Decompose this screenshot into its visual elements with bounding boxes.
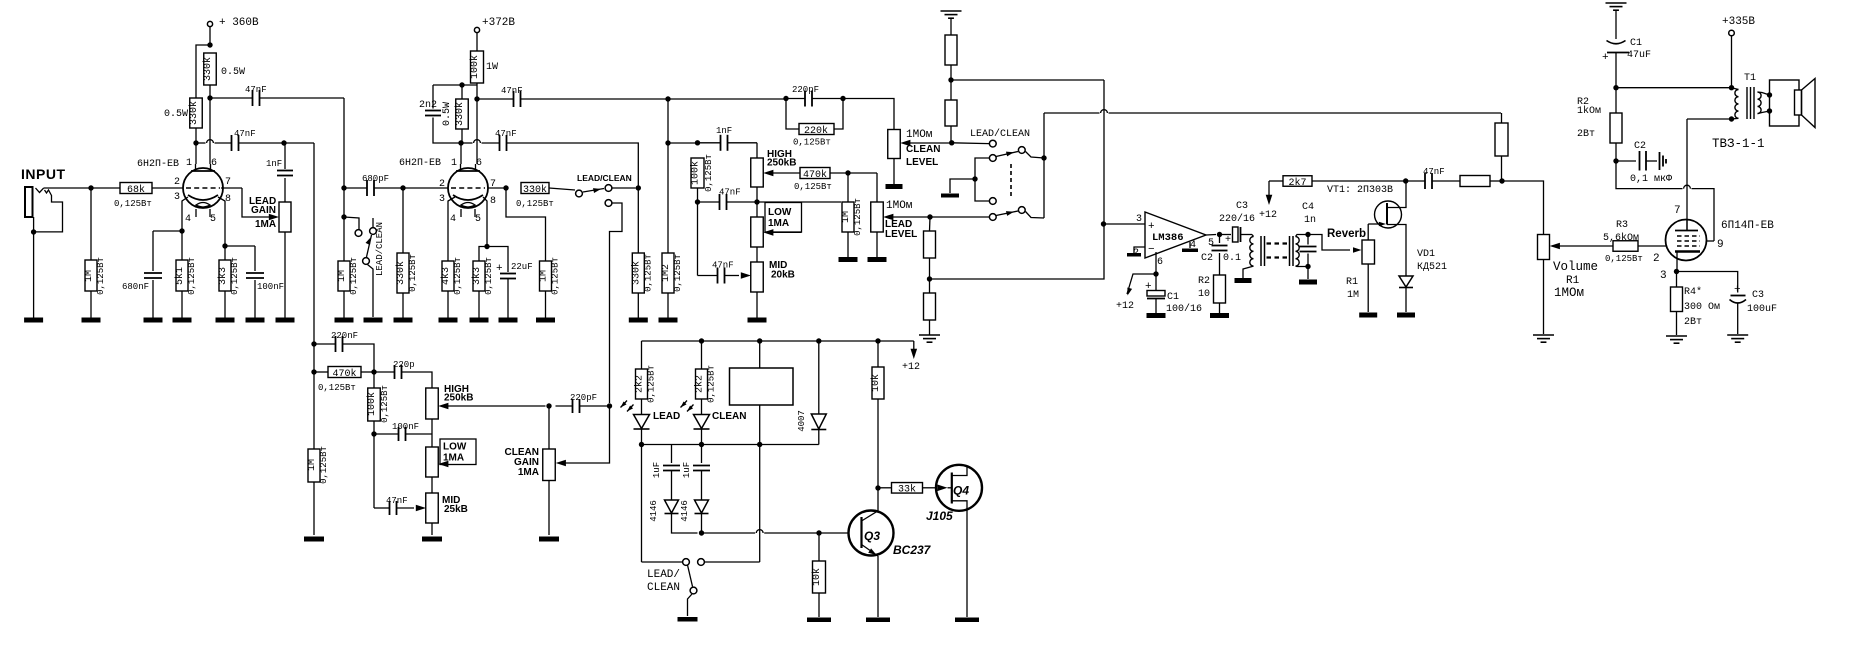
svg-text:100nF: 100nF: [257, 282, 284, 292]
svg-text:47nF: 47nF: [501, 86, 523, 96]
svg-text:1nF: 1nF: [716, 126, 732, 136]
svg-text:100k: 100k: [469, 55, 481, 79]
svg-text:+372В: +372В: [482, 17, 515, 29]
svg-text:+335В: +335В: [1722, 16, 1755, 28]
svg-text:0,125Вт: 0,125Вт: [318, 383, 356, 393]
svg-text:LOW: LOW: [443, 442, 467, 453]
svg-text:Reverb: Reverb: [1327, 228, 1366, 240]
svg-text:C3: C3: [1236, 201, 1248, 212]
svg-text:2k2: 2k2: [634, 375, 646, 393]
svg-text:0,125Вт: 0,125Вт: [114, 199, 152, 209]
svg-text:0,125Вт: 0,125Вт: [1605, 254, 1643, 264]
svg-text:100nF: 100nF: [392, 422, 419, 432]
svg-text:CLEAN: CLEAN: [712, 411, 746, 422]
svg-text:0,125Вт: 0,125Вт: [647, 365, 657, 403]
svg-text:10k: 10k: [870, 374, 882, 392]
svg-text:1uF: 1uF: [682, 462, 692, 478]
svg-text:1M: 1M: [539, 270, 550, 282]
svg-text:2: 2: [174, 177, 180, 188]
svg-text:0,125Вт: 0,125Вт: [187, 257, 197, 295]
svg-text:5: 5: [475, 214, 481, 225]
svg-text:+: +: [496, 263, 503, 275]
svg-text:T1: T1: [1744, 73, 1756, 84]
svg-text:+12: +12: [902, 362, 920, 373]
svg-text:47uF: 47uF: [1627, 50, 1651, 61]
svg-text:1М2: 1М2: [661, 264, 672, 282]
svg-text:47nF: 47nF: [495, 129, 517, 139]
svg-text:C1: C1: [1630, 38, 1642, 49]
svg-text:+12: +12: [1259, 210, 1277, 221]
svg-text:0,125Вт: 0,125Вт: [794, 182, 832, 192]
svg-text:0.5W: 0.5W: [164, 109, 188, 120]
svg-text:47nF: 47nF: [1423, 167, 1445, 177]
svg-text:0,125Вт: 0,125Вт: [408, 254, 418, 292]
svg-text:220pF: 220pF: [792, 85, 819, 95]
svg-text:33k: 33k: [898, 484, 916, 496]
svg-text:0,125Вт: 0,125Вт: [319, 446, 329, 484]
svg-text:+: +: [1602, 52, 1609, 64]
svg-text:220/16: 220/16: [1219, 213, 1255, 225]
svg-text:0,125Вт: 0,125Вт: [516, 199, 554, 209]
svg-text:0,125Вт: 0,125Вт: [643, 254, 653, 292]
svg-text:LM386: LM386: [1152, 232, 1184, 244]
svg-text:6Н2П-ЕВ: 6Н2П-ЕВ: [399, 158, 441, 169]
svg-text:330k: 330k: [454, 102, 466, 126]
svg-text:47nF: 47nF: [719, 188, 741, 198]
svg-text:Volume: Volume: [1553, 260, 1598, 274]
svg-text:6: 6: [476, 158, 482, 169]
svg-text:1МОм: 1МОм: [906, 129, 933, 141]
svg-text:0,125Вт: 0,125Вт: [349, 257, 359, 295]
svg-text:−: −: [1148, 244, 1155, 256]
svg-text:+ 360В: + 360В: [219, 17, 259, 29]
svg-text:3k3: 3k3: [471, 267, 483, 285]
svg-text:330k: 330k: [395, 261, 407, 285]
svg-text:R2: R2: [1198, 276, 1210, 287]
svg-text:2: 2: [1653, 253, 1660, 265]
svg-text:C2: C2: [1634, 141, 1646, 152]
svg-text:+12: +12: [1116, 301, 1134, 312]
svg-text:LEVEL: LEVEL: [906, 157, 938, 168]
svg-text:2n2: 2n2: [419, 100, 437, 111]
svg-text:0.5W: 0.5W: [442, 102, 453, 126]
svg-text:+: +: [1145, 281, 1152, 293]
svg-text:LEAD/: LEAD/: [647, 569, 680, 581]
svg-text:470k: 470k: [332, 368, 356, 380]
svg-text:+: +: [1734, 284, 1741, 296]
svg-text:1MA: 1MA: [518, 467, 539, 478]
svg-text:5: 5: [1208, 238, 1214, 249]
svg-text:+: +: [1225, 235, 1231, 246]
svg-text:4k3: 4k3: [440, 267, 452, 285]
svg-text:CLEAN: CLEAN: [906, 144, 940, 155]
svg-text:1: 1: [451, 158, 457, 169]
svg-text:2Вт: 2Вт: [1684, 317, 1702, 328]
svg-text:330k: 330k: [523, 184, 547, 196]
svg-text:2k2: 2k2: [694, 375, 706, 393]
svg-text:330k: 330k: [202, 57, 214, 81]
svg-text:R1: R1: [1346, 277, 1358, 288]
svg-text:VT1: 2П303В: VT1: 2П303В: [1327, 185, 1393, 196]
svg-text:100k: 100k: [366, 392, 378, 416]
svg-text:47nF: 47nF: [386, 496, 408, 506]
svg-text:0,125Вт: 0,125Вт: [853, 198, 863, 236]
svg-text:330k: 330k: [630, 261, 642, 285]
svg-text:20kB: 20kB: [771, 270, 795, 281]
svg-text:470k: 470k: [803, 169, 827, 181]
svg-text:4: 4: [450, 214, 456, 225]
svg-text:220p: 220p: [393, 360, 415, 370]
svg-text:BC237: BC237: [893, 543, 932, 557]
svg-text:0,125Вт: 0,125Вт: [707, 365, 717, 403]
svg-text:1W: 1W: [486, 62, 498, 73]
svg-text:LEAD/CLEAN: LEAD/CLEAN: [577, 173, 632, 183]
svg-text:C1: C1: [1167, 292, 1179, 303]
svg-text:5k1: 5k1: [174, 267, 186, 285]
svg-text:+: +: [1148, 221, 1155, 233]
svg-text:47nF: 47nF: [234, 129, 256, 139]
svg-text:CLEAN: CLEAN: [647, 582, 680, 594]
svg-text:3: 3: [1136, 214, 1142, 225]
svg-text:6: 6: [1157, 257, 1163, 268]
svg-text:LOW: LOW: [768, 207, 792, 218]
svg-text:3: 3: [174, 192, 180, 203]
svg-text:220pF: 220pF: [570, 393, 597, 403]
svg-text:0,125Вт: 0,125Вт: [673, 254, 683, 292]
svg-text:100uF: 100uF: [1747, 304, 1777, 315]
svg-text:3: 3: [1660, 270, 1667, 282]
svg-text:1uF: 1uF: [652, 462, 662, 478]
svg-text:4: 4: [185, 214, 191, 225]
svg-text:10k: 10k: [811, 568, 823, 586]
svg-text:22uF: 22uF: [511, 262, 533, 272]
svg-text:LEAD: LEAD: [653, 411, 680, 422]
svg-text:6: 6: [211, 158, 217, 169]
svg-text:8: 8: [490, 196, 496, 207]
svg-text:1M: 1M: [307, 459, 318, 471]
svg-text:47nF: 47nF: [245, 85, 267, 95]
svg-text:ТВЗ-1-1: ТВЗ-1-1: [1712, 137, 1765, 151]
svg-text:9: 9: [1717, 239, 1724, 251]
svg-text:0,1 мкФ: 0,1 мкФ: [1630, 174, 1672, 185]
svg-text:100/16: 100/16: [1166, 303, 1202, 315]
svg-text:1n: 1n: [1304, 215, 1316, 226]
svg-text:1kОм: 1kОм: [1577, 105, 1601, 117]
svg-text:1МОм: 1МОм: [1554, 286, 1584, 300]
svg-text:1M: 1M: [84, 270, 95, 282]
svg-text:3k3: 3k3: [217, 267, 229, 285]
svg-text:300 Ом: 300 Ом: [1684, 302, 1720, 313]
svg-text:C3: C3: [1752, 290, 1764, 301]
svg-text:250kB: 250kB: [767, 158, 796, 169]
svg-text:6П14П-ЕВ: 6П14П-ЕВ: [1721, 220, 1774, 232]
svg-text:7: 7: [225, 177, 231, 188]
svg-text:7: 7: [1674, 205, 1681, 217]
svg-text:1M: 1M: [337, 270, 348, 282]
svg-text:R3: R3: [1616, 220, 1628, 231]
svg-text:VD1: VD1: [1417, 249, 1435, 260]
svg-text:68k: 68k: [127, 184, 145, 196]
svg-text:1МА: 1МА: [255, 219, 276, 230]
svg-text:1M: 1M: [1347, 290, 1359, 301]
svg-text:6Н2П-ЕВ: 6Н2П-ЕВ: [137, 159, 179, 170]
svg-text:2k7: 2k7: [1288, 177, 1306, 189]
svg-text:Q4: Q4: [953, 484, 969, 498]
svg-text:1M: 1M: [841, 211, 852, 223]
svg-text:47nF: 47nF: [712, 261, 734, 271]
svg-text:0,125Вт: 0,125Вт: [704, 154, 714, 192]
svg-text:3: 3: [439, 194, 445, 205]
svg-text:0,125Вт: 0,125Вт: [380, 385, 390, 423]
svg-text:4007: 4007: [797, 410, 807, 432]
svg-text:8: 8: [225, 194, 231, 205]
svg-text:25kB: 25kB: [444, 504, 468, 515]
svg-text:J105: J105: [926, 509, 953, 523]
svg-text:0,125Вт: 0,125Вт: [453, 257, 463, 295]
svg-text:LEAD/CLEAN: LEAD/CLEAN: [375, 222, 385, 276]
svg-text:Q3: Q3: [864, 529, 880, 543]
svg-text:C2: C2: [1201, 253, 1213, 264]
svg-text:4146: 4146: [680, 500, 690, 522]
svg-text:5: 5: [210, 214, 216, 225]
svg-text:R4*: R4*: [1684, 286, 1702, 298]
svg-text:220k: 220k: [804, 125, 828, 137]
svg-text:C4: C4: [1302, 202, 1314, 213]
svg-text:GAIN: GAIN: [251, 205, 276, 216]
svg-text:0,125Вт: 0,125Вт: [793, 138, 831, 148]
svg-text:4146: 4146: [649, 500, 659, 522]
svg-text:0,125Вт: 0,125Вт: [484, 257, 494, 295]
svg-text:5,6kОм: 5,6kОм: [1603, 232, 1639, 244]
svg-text:680nF: 680nF: [122, 282, 149, 292]
svg-text:0,125Вт: 0,125Вт: [551, 257, 561, 295]
svg-text:2Вт: 2Вт: [1577, 129, 1595, 140]
svg-text:КД521: КД521: [1417, 262, 1447, 273]
svg-text:100k: 100k: [690, 161, 702, 185]
svg-text:0,125Вт: 0,125Вт: [230, 257, 240, 295]
svg-text:1nF: 1nF: [266, 159, 282, 169]
svg-text:250kB: 250kB: [444, 393, 473, 404]
svg-text:0,125Вт: 0,125Вт: [96, 257, 106, 295]
svg-text:0.5W: 0.5W: [221, 67, 245, 78]
svg-text:330k: 330k: [188, 101, 200, 125]
svg-text:LEAD/CLEAN: LEAD/CLEAN: [970, 128, 1030, 140]
svg-text:0.1: 0.1: [1223, 253, 1241, 264]
svg-text:1: 1: [186, 158, 192, 169]
svg-text:220nF: 220nF: [331, 331, 358, 341]
svg-text:LEVEL: LEVEL: [885, 229, 917, 240]
svg-text:1МОм: 1МОм: [886, 200, 913, 212]
svg-text:1МА: 1МА: [768, 218, 789, 229]
svg-text:680pF: 680pF: [362, 174, 389, 184]
svg-text:INPUT: INPUT: [21, 166, 66, 182]
svg-text:10: 10: [1198, 289, 1210, 300]
